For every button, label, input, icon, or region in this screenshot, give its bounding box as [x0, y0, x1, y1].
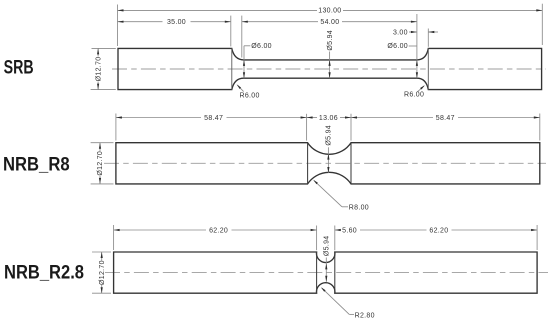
- svg-text:62.20: 62.20: [209, 227, 228, 234]
- svg-text:Ø12.70: Ø12.70: [97, 151, 104, 176]
- svg-text:Ø5.94: Ø5.94: [327, 30, 334, 51]
- svg-text:Ø6.00: Ø6.00: [251, 43, 272, 50]
- svg-text:62.20: 62.20: [429, 227, 448, 234]
- svg-text:Ø5.94: Ø5.94: [326, 125, 333, 146]
- svg-text:R6.00: R6.00: [404, 92, 424, 99]
- svg-text:Ø12.70: Ø12.70: [95, 57, 102, 82]
- svg-text:NRB_R2.8: NRB_R2.8: [4, 262, 84, 284]
- svg-text:58.47: 58.47: [436, 115, 455, 122]
- svg-text:R2.80: R2.80: [355, 312, 375, 319]
- svg-text:35.00: 35.00: [167, 19, 186, 26]
- svg-text:54.00: 54.00: [320, 19, 339, 26]
- svg-text:3.00: 3.00: [393, 29, 408, 36]
- svg-text:R8.00: R8.00: [349, 205, 369, 212]
- svg-text:SRB: SRB: [4, 57, 34, 79]
- svg-text:58.47: 58.47: [204, 115, 223, 122]
- svg-text:Ø12.70: Ø12.70: [99, 260, 106, 285]
- svg-text:R6.00: R6.00: [240, 92, 260, 99]
- svg-text:13.06: 13.06: [319, 115, 338, 122]
- svg-text:130.00: 130.00: [318, 8, 341, 15]
- svg-text:Ø5.94: Ø5.94: [324, 236, 331, 257]
- svg-text:5.60: 5.60: [342, 227, 357, 234]
- svg-text:NRB_R8: NRB_R8: [3, 154, 70, 176]
- svg-text:Ø6.00: Ø6.00: [387, 43, 408, 50]
